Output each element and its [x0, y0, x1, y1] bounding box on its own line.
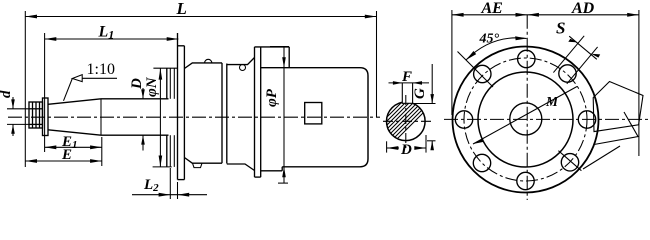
svg-text:45°: 45°: [479, 32, 500, 47]
dimension L1: [45, 33, 179, 152]
lifting dome: [205, 59, 212, 63]
joint ring: [222, 63, 227, 164]
taper flag 1:10: [64, 75, 118, 101]
S dimension line: [568, 36, 600, 59]
bottom raised block: [261, 167, 283, 171]
motor barrel: [261, 68, 368, 167]
flange inner circle: [478, 72, 573, 167]
svg-text:D: D: [129, 78, 145, 90]
svg-text:L1: L1: [98, 24, 115, 42]
svg-text:AD: AD: [571, 0, 595, 17]
svg-text:d: d: [0, 90, 14, 98]
dimension AE / AD: [452, 10, 639, 156]
flange outer circle: [453, 47, 599, 193]
bolt hole top: [518, 50, 535, 67]
shaft cylinder: [101, 99, 169, 135]
end view centerline horizontal: [444, 118, 648, 120]
rear ring: [255, 47, 261, 177]
flange plate: [178, 33, 185, 180]
45 degree arc: [466, 36, 527, 60]
tapered shaft: [48, 99, 101, 135]
svg-text:φN: φN: [144, 76, 160, 97]
bolt circle: [464, 58, 587, 181]
section centerlines: [383, 95, 433, 148]
svg-text:F: F: [401, 69, 412, 85]
top raised block: [255, 47, 290, 68]
body section 1: [184, 63, 222, 163]
svg-text:S: S: [556, 19, 565, 38]
dimension G: [414, 64, 436, 150]
bolt hole upper-right: [559, 65, 576, 82]
dimension L: [25, 11, 376, 167]
radial line lower-right hole: [558, 151, 581, 171]
svg-text:D: D: [400, 142, 412, 158]
conduit wedge: [583, 112, 638, 169]
svg-text:L: L: [176, 0, 187, 18]
svg-text:AE: AE: [481, 0, 503, 17]
shaft collar: [43, 98, 49, 136]
dimension F: [389, 81, 430, 85]
S callout tangent lines: [553, 36, 597, 84]
keyway slot: [402, 83, 412, 103]
svg-text:E1: E1: [61, 134, 78, 151]
bolt hole bottom: [517, 172, 534, 189]
shaft threaded end: [29, 102, 43, 128]
joint fitting: [240, 65, 246, 71]
svg-text:G: G: [412, 88, 428, 99]
dimension d: [7, 97, 29, 136]
svg-text:1:10: 1:10: [87, 61, 115, 78]
svg-text:L2: L2: [143, 177, 159, 194]
center hole: [510, 103, 542, 135]
dimension phiN: [153, 68, 178, 167]
dimension D (shaft): [141, 88, 145, 151]
centerline main axis: [8, 116, 380, 118]
bolt hole upper-left: [474, 65, 491, 82]
bolt hole left: [455, 111, 472, 128]
nameplate box: [305, 103, 322, 124]
M leader: [473, 87, 577, 145]
dimension D (section): [387, 135, 426, 153]
svg-text:φP: φP: [264, 88, 280, 107]
dimension E1: [45, 137, 102, 166]
section hatching: [370, 68, 468, 166]
shaft section circle: [387, 102, 426, 141]
dimension phiP: [270, 47, 289, 184]
bolt hole lower-left: [473, 154, 490, 171]
end view centerline vertical: [526, 15, 528, 200]
bottom tab: [193, 163, 203, 167]
radial line upper-left hole: [458, 52, 494, 88]
flange hub / spigot: [167, 68, 175, 167]
bolt hole lower-right: [561, 154, 578, 171]
terminal box: [593, 82, 643, 132]
bolt hole right: [578, 111, 595, 128]
body section 2: [227, 58, 255, 171]
svg-text:M: M: [545, 94, 559, 109]
dimension E: [25, 159, 102, 163]
dimension L2: [132, 168, 207, 199]
